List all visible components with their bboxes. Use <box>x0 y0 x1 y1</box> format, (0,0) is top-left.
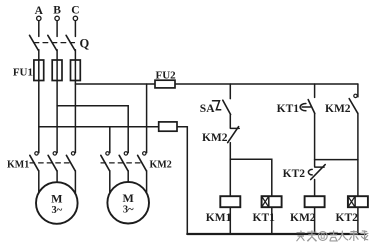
svg-text:FU1: FU1 <box>13 67 33 79</box>
wire junction to KT1 coil <box>230 159 271 196</box>
motor M2 <box>107 182 149 224</box>
svg-text:A: A <box>35 5 44 17</box>
contact KT2 blade <box>311 165 326 180</box>
node C terminal <box>73 16 77 20</box>
fuse FU2 second element <box>159 122 177 131</box>
contactor KM1 pole 1 contact <box>30 152 39 171</box>
coil KT1 <box>262 196 282 207</box>
switch Q pole 2 blade <box>48 35 57 50</box>
wire phase C switch to fuse <box>74 50 76 81</box>
wire KM1 coil to rail <box>229 207 231 234</box>
fuse FU1 pole 2 <box>52 60 62 81</box>
wire phase B terminal to switch <box>56 21 58 37</box>
fuse FU2 <box>155 80 175 88</box>
coil KT2 <box>348 196 368 207</box>
wire phase B fuse to contact <box>56 81 58 153</box>
svg-text:C: C <box>71 5 79 17</box>
wire drop phase A to KM2 pole 1 <box>109 127 111 153</box>
svg-text:M: M <box>123 191 134 205</box>
svg-text:Q: Q <box>80 37 90 51</box>
svg-text:M: M <box>51 192 62 206</box>
wire phase A fuse to contact <box>38 81 40 153</box>
wire KM1 pole 1 to motor <box>38 171 40 193</box>
svg-text:3~: 3~ <box>51 205 62 216</box>
contactor KM2 (motor) pole 3 contact <box>138 152 147 171</box>
coil KM2 <box>305 196 325 207</box>
switch Q pole 1 blade <box>30 35 39 50</box>
svg-text:3~: 3~ <box>123 205 134 216</box>
node A terminal <box>37 16 41 20</box>
coil KM1 <box>220 196 240 207</box>
switch Q linkage dashed line <box>34 42 75 44</box>
wire KM1 pole 2 to motor <box>56 171 58 183</box>
contact KT2 tick <box>315 166 324 168</box>
wire KT2 coil to rail <box>357 207 359 234</box>
wire drop phase C to KM2 pole 3 <box>146 84 148 153</box>
contact KM2 aux NO <box>349 94 358 113</box>
switch SA blade <box>223 100 231 114</box>
wire control bottom rail <box>187 233 365 235</box>
wire KT1 coil to rail <box>271 207 273 234</box>
wire phase C terminal to switch <box>74 21 76 37</box>
svg-text:KM2: KM2 <box>202 132 228 144</box>
wire phase C fuse to contact <box>74 81 76 153</box>
contact KM2 NC tick <box>231 127 240 129</box>
contactor KM2 (motor) linkage dashed line <box>101 162 144 164</box>
fuse FU1 pole 1 <box>34 60 44 81</box>
contact KM2 NC blade <box>228 127 239 143</box>
wire SA branch from top rail <box>229 84 231 99</box>
switch SA actuator symbol <box>213 101 221 110</box>
wire phase A feeder <box>39 126 188 128</box>
svg-text:KM1: KM1 <box>206 212 232 224</box>
contactor KM2 (motor) pole 2 contact <box>119 152 128 171</box>
svg-text:KM1: KM1 <box>7 160 29 171</box>
contact KT2 delay arc <box>308 169 312 175</box>
wire phase C feeder / control top rail <box>75 83 358 85</box>
node B terminal <box>55 16 59 20</box>
wire KM2 aux to KT2 coil <box>357 113 359 196</box>
wire phase B switch to fuse <box>56 50 58 81</box>
switch Q pole 3 blade <box>66 35 75 50</box>
wire KM2 coil to rail <box>314 207 316 234</box>
wire KM2 NC to KM1 coil <box>229 143 231 197</box>
wire KM2 aux contact from rail <box>357 84 359 97</box>
wire phase B feeder <box>57 106 128 153</box>
wire KM1 pole 3 to motor <box>74 171 76 193</box>
wire control return drop <box>186 127 188 234</box>
svg-text:KT1: KT1 <box>277 103 300 115</box>
contactor KM1 pole 2 contact <box>48 152 57 171</box>
wire junction KT branch to KM2 branch <box>315 159 358 161</box>
svg-text:KT2: KT2 <box>336 212 359 224</box>
watermark <box>297 230 369 241</box>
wire SA to KM2 NC contact <box>229 115 231 129</box>
wire phase A switch to fuse <box>38 50 40 81</box>
contact KT1 delay arc <box>300 104 310 111</box>
contactor KM2 (motor) pole 1 contact <box>101 152 110 171</box>
motor M1 <box>36 182 78 224</box>
contact KT1 blade <box>308 100 315 114</box>
fuse FU1 pole 3 <box>71 60 81 81</box>
contactor KM1 pole 3 contact <box>66 152 75 171</box>
svg-text:KT2: KT2 <box>283 168 306 180</box>
wire KT1 contact branch from rail <box>314 84 316 97</box>
svg-text:B: B <box>53 5 61 17</box>
wire phase A terminal to switch <box>38 21 40 37</box>
svg-text:SA: SA <box>200 103 215 115</box>
svg-text:KM2: KM2 <box>325 103 351 115</box>
svg-text:KM2: KM2 <box>290 212 316 224</box>
wire KT2 contact to KM2 coil <box>314 180 316 197</box>
svg-text:KM2: KM2 <box>150 159 172 170</box>
contactor KM1 linkage dashed line <box>30 162 73 164</box>
wire KM2 pole 1 to motor <box>109 171 111 193</box>
wire KM2 pole 2 to motor <box>127 171 129 182</box>
wire KM2 pole 3 to motor <box>146 171 148 193</box>
wire KT1 contact to KT2 contact <box>314 114 316 167</box>
